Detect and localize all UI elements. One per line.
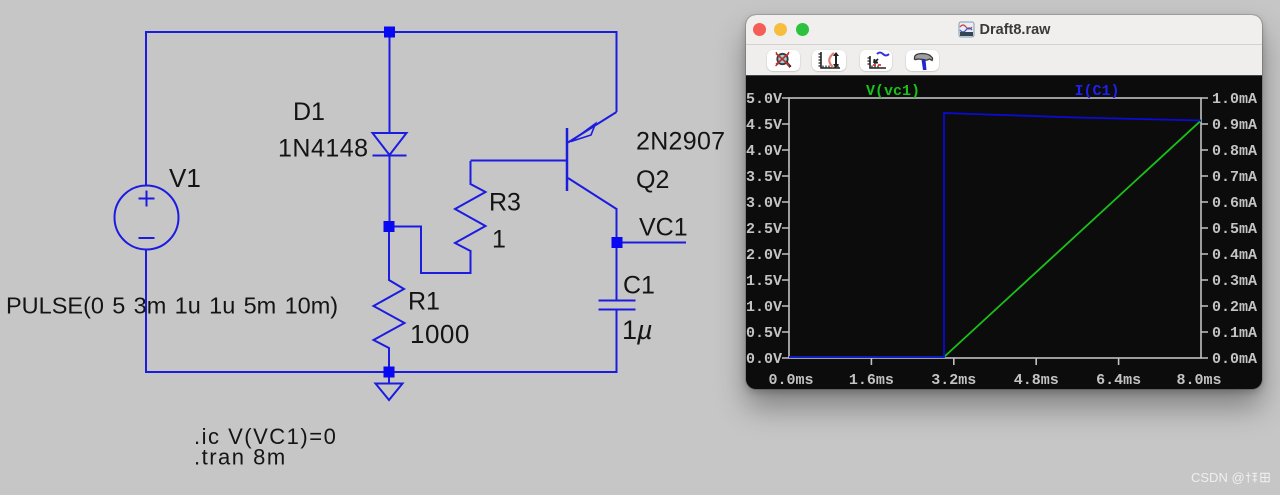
waveform viewer window xyxy=(746,15,1262,389)
node D1-R1-R3 junction xyxy=(384,221,395,232)
svg-text:0.9mA: 0.9mA xyxy=(1212,117,1257,134)
wire diode anode xyxy=(389,31,391,133)
svg-text:R1: R1 xyxy=(408,288,440,316)
wire left rail xyxy=(145,31,147,186)
toolbar button autorange y xyxy=(860,50,892,71)
trace I(C1) blue xyxy=(789,113,1201,357)
svg-text:2N2907: 2N2907 xyxy=(636,128,725,156)
right axis labels xyxy=(1212,91,1257,368)
svg-text:0.3mA: 0.3mA xyxy=(1212,273,1257,290)
svg-text:I(C1): I(C1) xyxy=(1074,83,1119,100)
zoom button xyxy=(796,23,809,36)
svg-text:VC1: VC1 xyxy=(639,214,688,242)
svg-text:D1: D1 xyxy=(293,98,325,126)
svg-text:0.8mA: 0.8mA xyxy=(1212,143,1257,160)
left axis labels xyxy=(746,91,782,368)
svg-text:3.0V: 3.0V xyxy=(746,195,782,212)
close button xyxy=(753,23,766,36)
wire C1 bottom lead xyxy=(616,310,618,374)
svg-text:4.5V: 4.5V xyxy=(746,117,782,134)
toolbar button control panel hammer xyxy=(906,50,939,71)
wire top rail xyxy=(146,31,617,33)
svg-text:3.2ms: 3.2ms xyxy=(931,372,976,389)
svg-text:0.1mA: 0.1mA xyxy=(1212,325,1257,342)
node bottom junction xyxy=(384,367,395,378)
svg-text:R3: R3 xyxy=(489,189,521,217)
svg-text:.tran 8m: .tran 8m xyxy=(194,445,287,470)
wire V1 bottom xyxy=(145,249,147,373)
svg-text:1.0mA: 1.0mA xyxy=(1212,91,1257,108)
svg-text:0.6mA: 0.6mA xyxy=(1212,195,1257,212)
wire emitter vertical xyxy=(616,31,618,112)
x axis labels xyxy=(768,372,1221,389)
wire node to R3 bottom jog xyxy=(390,227,471,274)
svg-text:1: 1 xyxy=(492,226,506,254)
resistor R3 xyxy=(455,161,486,251)
svg-text:4.8ms: 4.8ms xyxy=(1014,372,1059,389)
wire collector to VC1 node xyxy=(616,208,618,243)
wire C1 top lead xyxy=(616,242,618,300)
toolbar button autorange xyxy=(767,50,800,71)
svg-text:C1: C1 xyxy=(623,272,655,300)
transistor Q2 xyxy=(567,112,617,209)
y ticks right xyxy=(1201,98,1208,358)
svg-text:0.0mA: 0.0mA xyxy=(1212,351,1257,368)
svg-text:V1: V1 xyxy=(169,163,201,193)
plot frame xyxy=(789,98,1201,358)
svg-text:0.4mA: 0.4mA xyxy=(1212,247,1257,264)
svg-text:1N4148: 1N4148 xyxy=(278,135,369,163)
svg-text:0.0ms: 0.0ms xyxy=(768,372,813,389)
ground xyxy=(376,377,403,400)
capacitor C1 xyxy=(599,301,636,310)
svg-text:Q2: Q2 xyxy=(636,166,669,194)
svg-text:1.6ms: 1.6ms xyxy=(849,372,894,389)
svg-text:0.0V: 0.0V xyxy=(746,351,782,368)
wire bottom rail xyxy=(145,371,617,373)
svg-text:4.0V: 4.0V xyxy=(746,143,782,160)
svg-text:5.0V: 5.0V xyxy=(746,91,782,108)
svg-text:1µ: 1µ xyxy=(622,315,653,345)
svg-text:1.0V: 1.0V xyxy=(746,299,782,316)
node top junction xyxy=(384,27,395,38)
toolbar button zoom box xyxy=(812,50,846,71)
node VC1 xyxy=(612,237,623,248)
svg-text:0.5V: 0.5V xyxy=(746,325,782,342)
wire diode cathode to node xyxy=(389,156,391,232)
wire R3 top to base xyxy=(471,160,567,162)
svg-text:8.0ms: 8.0ms xyxy=(1176,372,1221,389)
watermark CSDN xyxy=(1191,470,1272,485)
minimize button xyxy=(774,23,787,36)
svg-text:6.4ms: 6.4ms xyxy=(1096,372,1141,389)
svg-text:3.5V: 3.5V xyxy=(746,169,782,186)
svg-text:2.5V: 2.5V xyxy=(746,221,782,238)
wire VC1 stub xyxy=(617,242,686,244)
svg-text:0.5mA: 0.5mA xyxy=(1212,221,1257,238)
svg-text:PULSE(0 5 3m 1u 1u 5m 10m): PULSE(0 5 3m 1u 1u 5m 10m) xyxy=(6,293,338,319)
svg-text:0.2mA: 0.2mA xyxy=(1212,299,1257,316)
svg-text:0.7mA: 0.7mA xyxy=(1212,169,1257,186)
diode D1 xyxy=(373,133,407,156)
trace V(vc1) green xyxy=(789,120,1201,357)
svg-text:V(vc1): V(vc1) xyxy=(866,83,920,100)
resistor R1 xyxy=(374,227,405,372)
voltage source V1 xyxy=(115,186,179,250)
svg-text:1.5V: 1.5V xyxy=(746,273,782,290)
x ticks xyxy=(871,358,1118,365)
y ticks left xyxy=(782,98,789,358)
window title xyxy=(746,15,1262,44)
svg-text:2.0V: 2.0V xyxy=(746,247,782,264)
svg-text:1000: 1000 xyxy=(410,319,470,349)
